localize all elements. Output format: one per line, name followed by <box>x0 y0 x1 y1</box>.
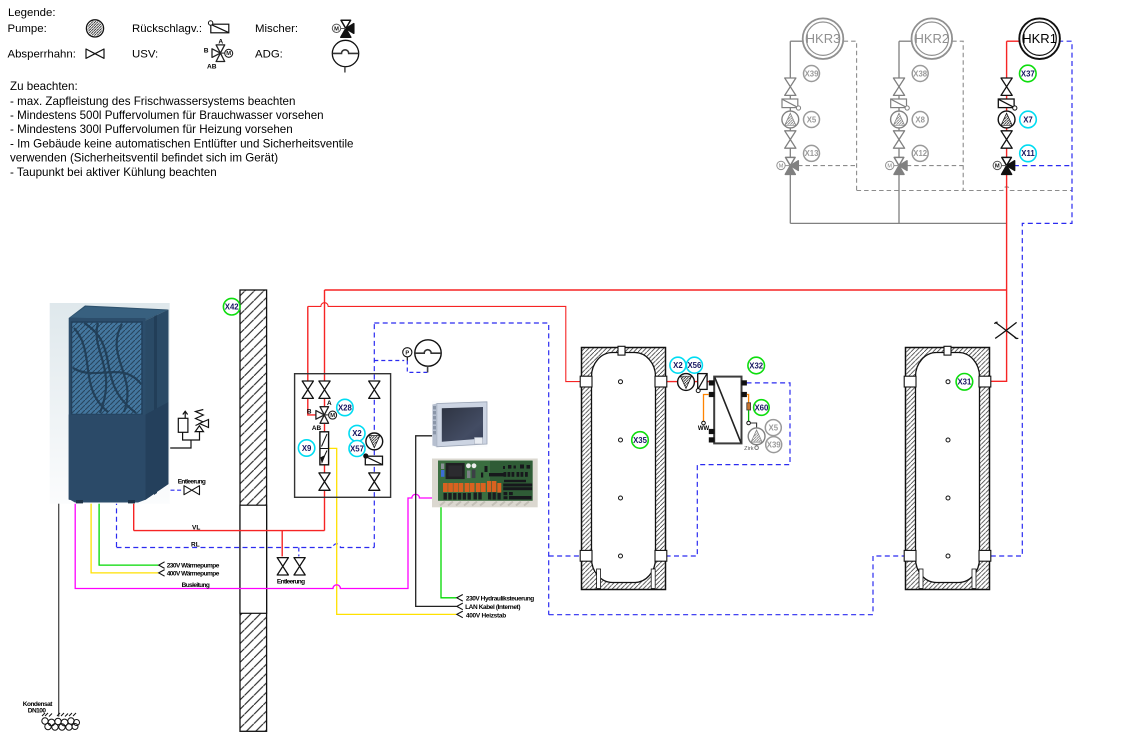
svg-text:A: A <box>218 39 223 46</box>
heat exchanger <box>709 377 747 444</box>
HKR2 circle <box>912 18 953 59</box>
label X7 cyan <box>1020 111 1037 128</box>
arrow LAN <box>457 603 463 610</box>
pump freshwater <box>678 374 695 391</box>
svg-text:- max. Zapfleistung des Frisch: - max. Zapfleistung des Frischwassersyst… <box>10 95 295 108</box>
wire green 230V Waermepumpe <box>99 500 158 565</box>
valve HKR2 upper <box>893 78 904 95</box>
svg-text:X38: X38 <box>913 69 928 78</box>
safety valve spring <box>196 410 204 426</box>
HP drain valve <box>184 486 200 495</box>
expansion vessel <box>178 418 188 432</box>
top face <box>69 306 169 321</box>
svg-text:X7: X7 <box>1023 115 1033 124</box>
wire gray HKR3 vertical <box>789 41 791 223</box>
wire red Entleerung stub <box>281 531 283 557</box>
mixer HKR2 <box>886 157 908 174</box>
wire blue dashed tank2 to HKR1 return <box>991 41 1072 556</box>
wire blue dashed freshwater loop <box>666 383 790 556</box>
valve HKR3 upper <box>785 78 796 95</box>
wire red tank1 to heat exchanger <box>666 381 711 383</box>
label X38 <box>912 66 928 82</box>
svg-text:HKR3: HKR3 <box>806 31 841 46</box>
wire blue dashed RL from heat pump <box>116 500 118 548</box>
svg-text:X31: X31 <box>957 378 972 387</box>
svg-text:Zirk: Zirk <box>744 446 754 452</box>
check valve in box <box>364 454 383 465</box>
legend pump icon <box>86 20 103 37</box>
svg-text:Kondensat: Kondensat <box>23 701 54 708</box>
wire blue dashed RL riser through box <box>373 323 375 548</box>
svg-text:X28: X28 <box>338 403 353 412</box>
label X11 cyan <box>1020 145 1037 162</box>
wire gray dashed HKR3 return <box>844 41 857 190</box>
svg-text:X5: X5 <box>769 423 779 432</box>
svg-text:- Mindestens 500l Puffervolume: - Mindestens 500l Puffervolumen für Brau… <box>10 109 324 122</box>
label X32 <box>748 357 765 374</box>
svg-text:X32: X32 <box>749 361 764 370</box>
svg-text:Legende:: Legende: <box>8 7 56 19</box>
closed-valve X symbol on HKR1 line <box>995 322 1019 338</box>
blue terminal <box>441 470 444 477</box>
svg-text:X8: X8 <box>915 115 925 124</box>
svg-text:WW: WW <box>698 426 710 432</box>
svg-text:HKR2: HKR2 <box>914 31 949 46</box>
wire blue dashed RL top run <box>374 323 548 615</box>
svg-text:A: A <box>327 400 332 407</box>
check valve HKR2 <box>891 99 910 110</box>
wire gray dashed HKR3 mixer return <box>798 165 857 167</box>
svg-text:Entleerung: Entleerung <box>277 579 305 586</box>
check valve HKR1 <box>998 99 1017 110</box>
valve box top-left <box>302 381 313 398</box>
wire red A-branch vertical through box <box>324 290 326 531</box>
label X28 <box>337 399 353 415</box>
svg-text:LAN Kabel (Internet): LAN Kabel (Internet) <box>465 604 520 611</box>
legend mixer icon <box>332 20 354 37</box>
check valve HKR3 <box>782 99 801 110</box>
wire gray HKR2 vertical <box>898 41 900 223</box>
wire gray HKR2 top <box>899 40 912 42</box>
check valve freshwater <box>696 374 707 393</box>
right side face <box>146 310 169 500</box>
sensor dots <box>619 380 623 558</box>
terminal blocks under relays <box>444 493 501 500</box>
wire red VL to heat pump <box>134 530 325 532</box>
svg-text:X2: X2 <box>352 429 362 438</box>
lower solid part <box>69 415 146 500</box>
legend check valve icon <box>208 21 228 33</box>
WW line <box>704 395 709 422</box>
pressure gauge P <box>403 348 412 357</box>
svg-text:DN100: DN100 <box>28 708 47 715</box>
svg-text:P: P <box>405 351 409 357</box>
wire red B-branch vertical <box>308 306 316 415</box>
HKR1 circle <box>1019 18 1060 59</box>
valve box bottom-right <box>369 473 380 490</box>
label X8 <box>912 112 928 128</box>
wire red HKR1 top <box>1007 40 1020 42</box>
svg-text:X2: X2 <box>673 361 683 370</box>
svg-text:400V Wärmepumpe: 400V Wärmepumpe <box>167 570 220 577</box>
valve Entleerung left <box>277 558 288 575</box>
label X39 <box>804 66 820 82</box>
svg-text:Zu beachten:: Zu beachten: <box>10 80 78 93</box>
valve HKR3 lower <box>785 131 796 148</box>
pump Zirk <box>748 428 765 445</box>
legend shutoff valve icon <box>86 49 104 58</box>
wire black LAN <box>416 436 457 607</box>
label X60 <box>754 400 770 416</box>
label X2 fresh <box>670 357 686 373</box>
svg-text:X5: X5 <box>807 115 817 124</box>
mixer HKR1 <box>993 157 1015 174</box>
svg-text:X39: X39 <box>767 440 782 449</box>
svg-text:USV:: USV: <box>132 49 158 61</box>
svg-text:Rückschlagv.:: Rückschlagv.: <box>132 23 202 35</box>
svg-text:B: B <box>204 48 209 55</box>
svg-text:VL: VL <box>192 525 200 532</box>
svg-text:X56: X56 <box>687 361 702 370</box>
feet <box>76 500 83 503</box>
wire red heat pump drop <box>133 500 135 531</box>
wire blue dashed gauge branch <box>374 361 427 373</box>
legend USV icon <box>204 39 233 71</box>
HKR3 circle <box>803 18 844 59</box>
relays <box>443 481 501 493</box>
label X37 green <box>1020 65 1037 82</box>
wire yellow 400V Heizstab <box>328 448 457 614</box>
wire gray dashed HKR2 return <box>952 41 963 190</box>
heater Heizstab <box>320 432 329 465</box>
side ports <box>580 376 592 387</box>
valve HKR2 lower <box>893 131 904 148</box>
valve HKR1 lower <box>1001 131 1012 148</box>
ADG vessel <box>415 340 441 366</box>
svg-text:X42: X42 <box>225 303 240 312</box>
label X42 green <box>223 298 240 315</box>
mesh panel <box>72 322 143 415</box>
svg-text:230V Hydrauliksteuerung: 230V Hydrauliksteuerung <box>466 595 534 602</box>
wire red HKR1 vertical <box>990 41 1007 381</box>
inner vessel <box>592 353 656 583</box>
wire blue dashed Entleerung stub <box>298 548 300 557</box>
svg-text:Entleerung: Entleerung <box>178 478 206 485</box>
svg-text:Pumpe:: Pumpe: <box>8 23 47 35</box>
wire gray dashed return collector with hop <box>857 187 1072 191</box>
svg-text:400V Heizstab: 400V Heizstab <box>466 613 506 620</box>
bottom slots <box>597 569 601 589</box>
label X57 box <box>349 441 365 457</box>
arrow 230V WP <box>159 562 165 569</box>
svg-text:Absperrhahn:: Absperrhahn: <box>8 49 76 61</box>
arrow 230V Hydraulik <box>457 595 463 602</box>
svg-text:Busleitung: Busleitung <box>182 582 210 589</box>
arrow 400V WP <box>159 570 165 577</box>
label X5 gray <box>765 420 781 436</box>
pump HKR1 <box>998 111 1015 128</box>
label X31 <box>956 374 973 391</box>
label X35 <box>632 432 649 449</box>
svg-text:X9: X9 <box>302 444 312 453</box>
svg-text:230V Wärmepumpe: 230V Wärmepumpe <box>167 563 220 570</box>
arrow 400V Heizstab <box>457 611 463 618</box>
svg-text:X12: X12 <box>913 149 928 158</box>
label X5 <box>804 112 820 128</box>
valve box top-mid <box>319 381 330 398</box>
transformer <box>446 463 465 479</box>
USV valve in box <box>307 400 337 432</box>
pump HKR2 <box>891 111 908 128</box>
capacitors <box>466 463 471 468</box>
svg-text:- Mindestens 300l Puffervolume: - Mindestens 300l Puffervolumen für Heiz… <box>10 123 293 136</box>
top port <box>618 346 625 355</box>
wire gray HKR3 top <box>790 40 803 42</box>
wire blue dashed RL horizontal with hop <box>117 544 375 548</box>
svg-text:- Taupunkt bei aktiver Kühlung: - Taupunkt bei aktiver Kühlung beachten <box>10 166 217 179</box>
svg-text:ADG:: ADG: <box>255 49 283 61</box>
wire blue dashed tank1 bottom port branch <box>549 555 581 557</box>
wire blue dashed long bottom run <box>549 556 905 615</box>
svg-text:X57: X57 <box>350 444 364 453</box>
svg-text:AB: AB <box>207 64 217 71</box>
wire blue dashed HP drain stub <box>171 489 184 491</box>
pump X57 in box <box>366 433 383 450</box>
front face <box>69 318 146 503</box>
case bottom vents <box>440 502 529 506</box>
pump HKR3 <box>782 111 799 128</box>
wire yellow 400V Waermepumpe <box>91 500 158 573</box>
label X9 <box>298 440 314 456</box>
svg-text:X39: X39 <box>805 69 820 78</box>
right-side component rows <box>481 465 532 500</box>
Zirk line <box>747 395 749 403</box>
svg-text:X11: X11 <box>1021 149 1035 158</box>
wire gray supply collector <box>790 222 1006 224</box>
svg-text:Mischer:: Mischer: <box>255 23 298 35</box>
valve Entleerung right <box>294 558 305 575</box>
valve box top-right <box>369 381 380 398</box>
label X2 box <box>349 425 365 441</box>
label X56 <box>686 357 702 373</box>
wire red VL top horizontal <box>325 289 1007 291</box>
svg-text:X35: X35 <box>633 436 648 445</box>
svg-text:B: B <box>307 409 312 416</box>
wire red USV-B to tank1 with hop <box>308 303 582 382</box>
svg-text:verwenden (Sicherheitsventil b: verwenden (Sicherheitsventil befindet si… <box>10 152 278 165</box>
mixer HKR3 <box>777 157 799 174</box>
svg-text:X60: X60 <box>754 403 769 412</box>
svg-text:- Im Gebäude keine automatisch: - Im Gebäude keine automatischen Entlüft… <box>10 137 354 150</box>
wire magenta Busleitung <box>75 494 433 588</box>
svg-text:RL: RL <box>191 541 200 548</box>
wire dark Kondensat drop <box>58 500 60 717</box>
wire blue dashed HKR1 mixer return <box>1014 165 1072 167</box>
wire gray dashed HKR2 mixer return <box>907 165 964 167</box>
label X13 <box>804 145 820 161</box>
svg-text:HKR1: HKR1 <box>1022 31 1057 46</box>
svg-text:X37: X37 <box>1021 69 1035 78</box>
valve HKR1 upper <box>1001 78 1012 95</box>
valve box bottom-left <box>319 473 330 490</box>
svg-text:X13: X13 <box>805 149 820 158</box>
legend ADG icon <box>332 40 358 72</box>
label X12 <box>912 145 928 161</box>
label X39 gray <box>766 437 782 453</box>
wire green 230V Hydrauliksteuerung <box>441 507 457 598</box>
